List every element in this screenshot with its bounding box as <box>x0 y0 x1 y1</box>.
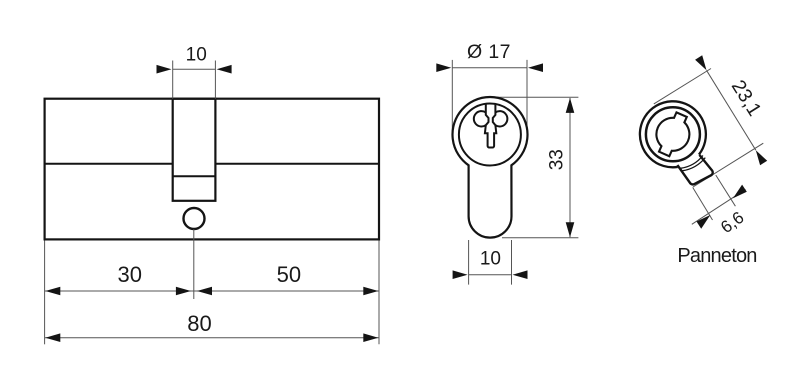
center line under hole <box>193 229 195 299</box>
thin lines middle <box>452 60 578 285</box>
arrow 80 left <box>45 333 60 342</box>
arrows right view <box>695 55 767 228</box>
ext line 6,6 right <box>716 175 736 206</box>
arrow 23,1 top <box>695 55 706 70</box>
ext line 33 bottom <box>502 237 578 239</box>
svg-text:10: 10 <box>186 45 207 66</box>
profile cylinder outline <box>453 97 528 238</box>
dim line 80 <box>45 337 379 339</box>
ext lines Ø17 <box>451 60 453 135</box>
notch inner line <box>173 175 216 177</box>
arrow Ø17 left <box>436 63 451 72</box>
svg-text:10: 10 <box>480 249 501 270</box>
arrows left view <box>45 65 378 342</box>
stem outline <box>677 155 712 185</box>
ext line 23,1 lower (from stem end) <box>693 143 763 187</box>
dim line 30-50 <box>45 290 379 292</box>
keyhole <box>474 104 508 147</box>
arrow 10 right <box>513 270 528 279</box>
left lobe arc <box>474 111 486 126</box>
arrow 50 left <box>197 287 212 296</box>
arrow 50 right <box>363 287 378 296</box>
arrow 30 left <box>45 287 60 296</box>
arrow 10 left <box>157 65 172 74</box>
thin dim lines right view <box>654 69 764 225</box>
outer circle (interrupted at stem) <box>640 101 706 167</box>
dim line Ø17 <box>452 67 527 69</box>
ext lines 10 top <box>172 61 174 99</box>
body rectangle <box>45 99 379 240</box>
arrows middle <box>436 63 574 279</box>
dim line 23,1 <box>707 70 756 150</box>
svg-text:Panneton: Panneton <box>677 245 756 267</box>
ext line 23,1 upper (from circle NW) <box>654 69 711 104</box>
ext line 33 top <box>490 96 579 98</box>
outer body: circle + stem <box>453 97 528 238</box>
mid line right <box>215 163 379 165</box>
cam body <box>640 101 713 184</box>
svg-text:80: 80 <box>187 311 211 336</box>
arrow 10 right <box>217 65 232 74</box>
inner circle <box>459 104 521 166</box>
svg-text:Ø 17: Ø 17 <box>467 41 511 63</box>
ext lines 10 bottom <box>468 240 470 285</box>
arrow 80 right <box>363 333 378 342</box>
cam lobe with two tabs <box>656 112 689 156</box>
arrow 23,1 bottom <box>756 150 767 165</box>
dim line 33 <box>569 98 571 237</box>
screw hole circle <box>184 208 205 229</box>
collar arc 1 <box>680 156 702 169</box>
arrow Ø17 right <box>528 63 543 72</box>
svg-text:33: 33 <box>547 149 568 170</box>
left boundary with waist jogs <box>485 104 496 147</box>
arrow 6,6 sw <box>697 215 711 229</box>
arrow 30 right <box>176 287 191 296</box>
arrow 6,6 ne <box>733 185 747 199</box>
mid line left <box>45 163 173 165</box>
arrow 10 left <box>453 270 468 279</box>
stem fill (no stroke) <box>677 155 712 185</box>
ext line bottom right <box>378 241 380 345</box>
dim line 6,6 <box>692 189 746 224</box>
arrow 33 top <box>566 98 575 113</box>
collar arc 2 <box>682 158 705 171</box>
svg-text:50: 50 <box>277 262 301 287</box>
right lobe arc <box>495 111 507 126</box>
svg-text:30: 30 <box>118 262 142 287</box>
svg-text:6,6: 6,6 <box>717 208 747 237</box>
ring circle <box>646 107 700 161</box>
dim line 10 bottom <box>469 274 512 276</box>
thin dimension lines, left view <box>45 61 379 345</box>
arrow 33 bottom <box>566 222 575 237</box>
dim line 10 <box>173 68 216 70</box>
ext line bottom left <box>44 241 46 345</box>
ext line 6,6 left <box>693 187 713 220</box>
cam notch <box>173 99 216 201</box>
